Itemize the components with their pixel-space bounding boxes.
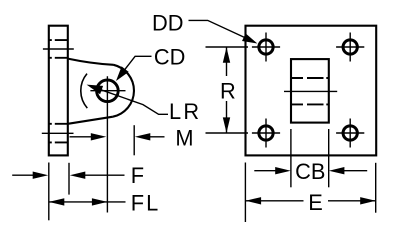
FL left arrowhead <box>49 198 65 205</box>
mounting plate outline <box>246 26 377 156</box>
bolt hole top-left <box>252 33 280 62</box>
ear round end arc <box>113 65 134 117</box>
bolt hole bottom-right <box>336 119 364 148</box>
svg-text:DD: DD <box>152 11 183 36</box>
F extension line right <box>68 163 70 195</box>
R up arrowhead <box>223 47 230 63</box>
arrowhead CD <box>116 66 129 81</box>
ear front view rectangle <box>291 59 329 123</box>
pivot pin hole circle <box>97 80 119 102</box>
hidden line row 4 (bottom hole lower edge) <box>49 141 68 143</box>
pin axis centerline <box>284 90 337 92</box>
R dimension line upper segment <box>226 47 228 76</box>
hidden hole edge top (dashed) <box>291 77 329 79</box>
centerline bottom mounting hole <box>42 132 74 134</box>
leader CD <box>125 56 152 69</box>
F extension line left <box>48 163 50 221</box>
svg-text:FL: FL <box>131 190 160 215</box>
svg-text:M: M <box>175 125 193 150</box>
CB dimension right arrow <box>341 170 368 172</box>
FL dimension line <box>49 201 126 203</box>
pin hole horizontal crosshair <box>90 90 125 92</box>
swing radius arc (left phantom arc) <box>81 74 88 109</box>
E dimension line left part <box>246 200 304 202</box>
R extension line top <box>206 46 249 48</box>
CB extension line right <box>328 129 330 187</box>
E extension line right <box>375 163 377 213</box>
svg-text:E: E <box>308 190 323 215</box>
FL right arrowhead <box>92 198 108 205</box>
R down arrowhead <box>223 117 230 132</box>
M dimension left arrow <box>70 136 95 138</box>
F dimension left arrow <box>12 174 36 176</box>
hidden hole edge bottom (dashed) <box>291 103 329 105</box>
hidden line row 3 (bottom hole upper edge) <box>49 123 68 125</box>
svg-text:CB: CB <box>295 159 325 184</box>
arrowhead DD <box>242 33 257 43</box>
E left arrowhead <box>246 197 262 204</box>
svg-text:LR: LR <box>169 99 201 124</box>
svg-text:F: F <box>131 163 144 188</box>
E dimension line right part <box>328 200 376 202</box>
R extension line bottom <box>206 132 249 134</box>
E right arrowhead <box>360 197 376 204</box>
centerline top mounting hole <box>43 48 74 50</box>
bolt hole top-right <box>336 33 364 62</box>
pin vertical centerline / extension line <box>106 76 108 212</box>
arrowhead LR <box>87 85 104 95</box>
hidden line row 2 (top hole lower edge) <box>49 57 68 59</box>
ear bottom tangent line <box>68 117 113 124</box>
F dimension right arrow with tail <box>82 174 125 176</box>
svg-text:CD: CD <box>154 44 185 69</box>
ear top tangent line <box>68 59 114 65</box>
svg-text:R: R <box>220 79 236 104</box>
M extension line (ear outer edge) <box>133 125 135 155</box>
E extension line left <box>244 163 246 223</box>
CB dimension left arrow <box>254 170 279 172</box>
leader DD <box>189 20 247 38</box>
hidden line row 1 (top hole upper edge) <box>49 39 68 41</box>
bracket base plate (side view rectangle) <box>49 26 68 156</box>
M dimension right arrow <box>147 136 165 138</box>
R dimension line lower segment <box>226 101 228 133</box>
leader LR <box>101 90 168 115</box>
bolt hole bottom-left <box>252 119 280 148</box>
CB extension line left <box>290 129 292 187</box>
